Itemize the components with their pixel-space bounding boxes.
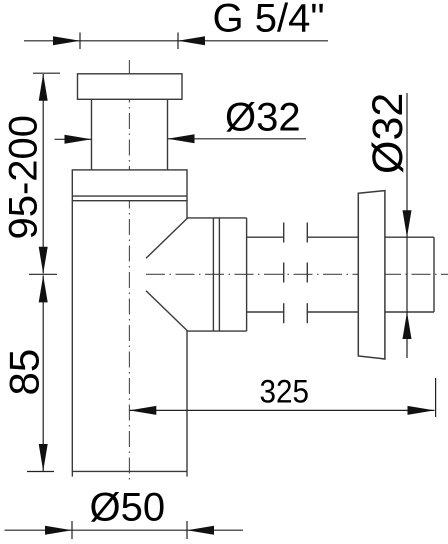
outlet nut inner double line 2 — [218, 218, 220, 331]
siphon top cap — [78, 74, 183, 100]
vertical inlet pipe left wall — [91, 99, 93, 169]
dim 325 right arrowhead — [408, 406, 435, 415]
dim Ø32 right up arrowhead — [403, 312, 412, 339]
pipe break tick left middle — [283, 263, 285, 283]
pipe break tick left top — [283, 223, 285, 243]
dim Ø50 right tick — [186, 521, 188, 539]
svg-text:Ø50: Ø50 — [90, 485, 166, 529]
pipe break tick right top — [306, 223, 308, 243]
siphon body right wall lower part — [186, 330, 188, 471]
dim Ø50 left tick — [71, 521, 73, 539]
dim Ø32 top right arrowhead — [168, 134, 195, 143]
dim Ø50 line — [5, 529, 244, 531]
outlet pipe top wall segment 3 — [385, 236, 434, 238]
dim Ø50 left arrowhead — [45, 526, 72, 535]
body left corner extension stub — [71, 471, 73, 476]
pipe break tick right bottom — [306, 303, 308, 323]
dim 85 vertical line — [42, 275, 44, 471]
outlet union nut top edge — [187, 217, 247, 219]
siphon body right wall upper part — [186, 201, 188, 219]
pipe break tick left bottom — [283, 303, 285, 323]
dim 95-200 vertical line — [42, 74, 44, 273]
horizontal centerline of outlet pipe — [146, 273, 448, 275]
outlet pipe end edge — [433, 237, 435, 312]
funnel lower diagonal — [146, 291, 188, 331]
dim G 5/4 left tick — [79, 33, 81, 50]
dim 325 left arrowhead — [129, 406, 156, 415]
dim 325 right extension tick — [435, 378, 437, 417]
pipe break tick right middle — [306, 263, 308, 283]
dim Ø32 right down arrowhead — [403, 210, 412, 237]
upper union nut — [72, 170, 187, 201]
wall flange rosette — [358, 191, 385, 359]
siphon body bottom — [72, 470, 187, 472]
upper nut bottom double line — [72, 195, 187, 197]
body right corner extension stub — [186, 471, 188, 476]
svg-text:325: 325 — [260, 373, 310, 409]
dim Ø32 top left arrowhead — [65, 135, 92, 144]
dim G 5/4 line — [24, 40, 328, 42]
svg-text:Ø32: Ø32 — [225, 95, 301, 139]
outlet pipe bottom wall segment 1 — [247, 311, 284, 313]
dim 95-200 top tick — [33, 72, 60, 74]
dim 85 top arrowhead — [39, 275, 48, 302]
outlet union nut bottom edge — [187, 330, 247, 332]
dim 325 line — [129, 409, 434, 411]
dim G 5/4 left arrowhead — [53, 36, 80, 45]
dim Ø32 top leader right line — [168, 138, 307, 140]
svg-text:85: 85 — [1, 349, 48, 396]
svg-text:Ø32: Ø32 — [364, 93, 412, 174]
outlet pipe bottom wall segment 3 — [385, 311, 434, 313]
svg-text:95-200: 95-200 — [2, 115, 46, 240]
dim G 5/4 right tick — [177, 33, 179, 50]
dim Ø32 right vertical line — [406, 93, 408, 358]
outlet pipe top wall segment 1 — [247, 236, 284, 238]
outlet union nut right edge — [246, 218, 248, 331]
outlet pipe bottom wall segment 2 — [307, 311, 358, 313]
dim 95-200 bottom arrowhead — [39, 247, 48, 274]
outlet nut inner double line 1 — [212, 218, 214, 331]
vertical inlet pipe right wall — [167, 99, 169, 169]
dim G 5/4 right arrowhead — [178, 36, 205, 45]
dim 85 bottom tick — [27, 471, 54, 473]
dim Ø50 right arrowhead — [187, 526, 214, 535]
funnel upper diagonal — [146, 218, 188, 258]
outlet pipe top wall segment 2 — [307, 236, 358, 238]
dim Ø32 top leader left arrow line — [55, 138, 92, 140]
dim 95-200 top arrowhead — [39, 74, 48, 101]
siphon body left wall — [71, 201, 73, 472]
svg-text:G 5/4": G 5/4" — [213, 0, 325, 41]
vertical centerline of body — [128, 60, 130, 483]
dim 85 bottom arrowhead — [39, 444, 48, 471]
dim 95-200 bottom tick — [29, 273, 57, 275]
